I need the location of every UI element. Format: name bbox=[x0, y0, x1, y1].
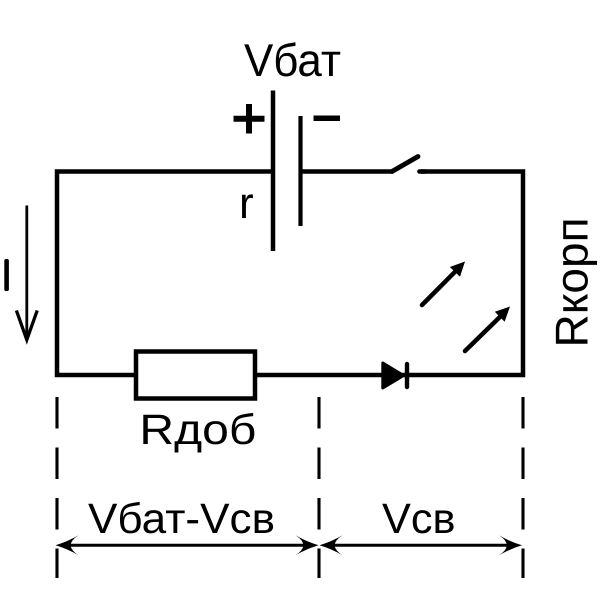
svg-text:Vбат: Vбат bbox=[244, 34, 341, 86]
svg-text:r: r bbox=[239, 179, 254, 228]
svg-text:Rкорп: Rкорп bbox=[546, 218, 598, 348]
svg-text:Vбат-Vсв: Vбат-Vсв bbox=[88, 496, 275, 543]
svg-text:Vсв: Vсв bbox=[382, 496, 456, 543]
svg-text:Rдоб: Rдоб bbox=[139, 407, 256, 454]
